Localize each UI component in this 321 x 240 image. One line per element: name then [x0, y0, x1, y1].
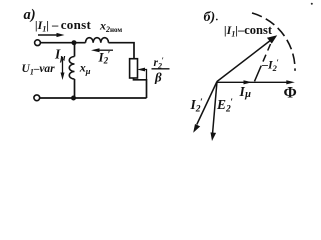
wire top-left — [41, 42, 86, 44]
wire resistor bottom jog — [134, 78, 147, 98]
junction dot top — [72, 40, 77, 45]
vector I1 — [217, 41, 270, 82]
current arrow Imu — [62, 57, 64, 74]
vector E2' — [213, 82, 218, 135]
current arrow I2' — [98, 49, 113, 51]
svg-text:–I2′: –I2′ — [261, 57, 279, 73]
junction dot bottom — [71, 96, 76, 101]
terminal top — [35, 40, 41, 46]
wire top-right and right drop — [109, 43, 135, 59]
dashed vector -I2' — [255, 44, 271, 81]
svg-text:б): б) — [204, 10, 216, 25]
dashed arc locus of I1 — [252, 13, 295, 71]
vector Phi axis — [217, 81, 288, 83]
wire bottom — [40, 97, 147, 99]
scan speck — [311, 3, 313, 5]
svg-text:β: β — [154, 70, 162, 85]
current arrow I1 — [38, 34, 58, 36]
inductor x2ном — [86, 38, 109, 43]
wire xmu branch upper — [74, 43, 76, 57]
svg-text:E2′: E2′ — [216, 97, 233, 115]
vector Imu (phasor) — [243, 81, 246, 83]
vector I2' — [197, 82, 217, 125]
wire xmu branch lower — [74, 79, 76, 98]
terminal bottom — [34, 95, 40, 101]
resistor r2'/beta — [130, 59, 138, 78]
pointer arrow to resistor — [143, 70, 147, 80]
svg-text:U1–var: U1–var — [22, 63, 56, 77]
inductor xmu — [69, 57, 74, 80]
svg-text:а): а) — [24, 7, 36, 23]
svg-text:Φ: Φ — [284, 85, 297, 102]
